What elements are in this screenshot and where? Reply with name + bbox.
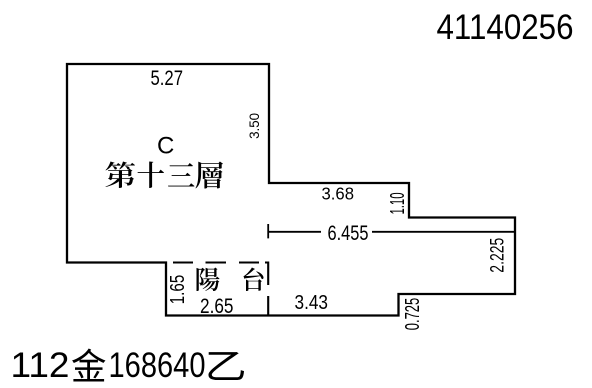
wire balcony dashed top edge [173,261,259,263]
node 金 [72,349,106,382]
svg-text:2.225: 2.225 [486,238,508,273]
node 乙 [209,352,245,380]
svg-text:0.725: 0.725 [401,298,424,331]
svg-text:5.27: 5.27 [151,67,184,90]
svg-text:168640: 168640 [109,345,206,385]
svg-text:112: 112 [11,345,70,385]
node 第十三層 [106,162,136,189]
svg-text:1.10: 1.10 [387,193,409,215]
svg-text:41140256: 41140256 [437,7,574,47]
node 陽台 [197,268,220,292]
svg-text:3.43: 3.43 [295,291,329,314]
svg-text:C: C [157,132,174,159]
wire outline of unit [67,64,515,316]
svg-text:2.65: 2.65 [200,295,234,318]
svg-text:6.455: 6.455 [328,222,369,245]
svg-text:3.68: 3.68 [322,184,355,204]
wire balcony dashed right edge [265,262,268,316]
svg-text:3.50: 3.50 [246,113,262,139]
svg-text:1.65: 1.65 [166,275,189,305]
wire dimension line with tick [268,224,514,238]
